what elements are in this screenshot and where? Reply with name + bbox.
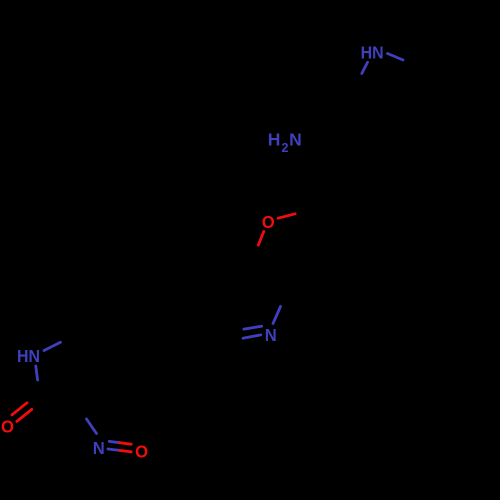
double bond N=O upper line blue half bbox=[109, 441, 119, 442]
svg-text:O: O bbox=[262, 212, 275, 232]
double bond C2=O lower line (red half) bbox=[17, 409, 32, 421]
bond N1'-C2' (blue half) bbox=[388, 54, 404, 61]
double bond C2=O upper line (red half) bbox=[12, 403, 27, 415]
svg-text:N: N bbox=[265, 325, 277, 345]
svg-text:N: N bbox=[93, 438, 105, 458]
bond C3-N(nitroso) (blue half, down-right) bbox=[87, 419, 97, 434]
bond N-C2 lactam (blue half, down) bbox=[36, 366, 38, 380]
svg-text:O: O bbox=[135, 441, 148, 461]
svg-text:O: O bbox=[1, 416, 14, 436]
double bond N=O lower line red half bbox=[120, 450, 132, 451]
bond N-C5 lactam (blue half, up-right) bbox=[44, 342, 61, 350]
bond N1'-C7a' (blue half) bbox=[362, 62, 368, 73]
double bond N=O upper line red half bbox=[120, 443, 132, 445]
double bond N=C6 pyridine lower line (blue half) bbox=[243, 335, 261, 338]
bond O-CH2 (red half, up-right) bbox=[278, 214, 295, 218]
double bond N=C6 pyridine upper line (blue half) bbox=[244, 326, 262, 329]
double bond N=O lower line blue half bbox=[108, 449, 120, 450]
bond N-C2 pyridine (blue half, up-right) bbox=[273, 307, 281, 324]
svg-text:HN: HN bbox=[17, 346, 40, 366]
svg-text:HN: HN bbox=[361, 42, 384, 62]
bond O-C3(pyridine) (red half, down-left) bbox=[258, 231, 264, 245]
